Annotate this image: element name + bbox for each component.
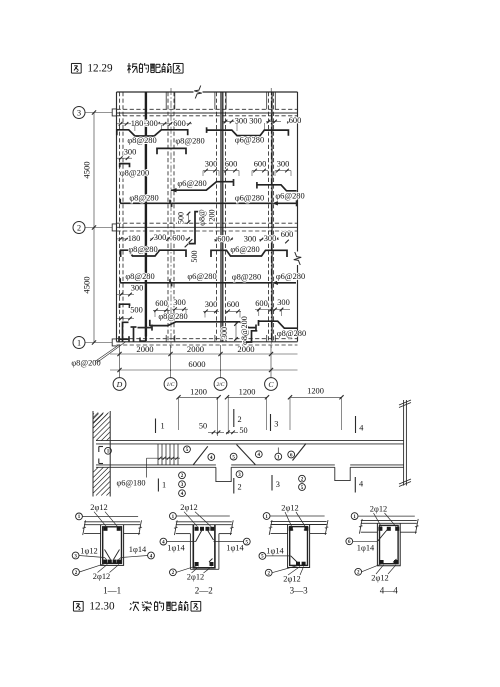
svg-text:300: 300 [249, 116, 262, 125]
svg-text:300: 300 [124, 148, 137, 157]
svg-text:φ8@200: φ8@200 [120, 169, 149, 178]
svg-text:600: 600 [227, 300, 240, 309]
svg-text:300: 300 [220, 327, 229, 339]
svg-text:1—1: 1—1 [103, 586, 121, 596]
svg-text:600: 600 [281, 230, 294, 239]
svg-text:2φ12: 2φ12 [90, 503, 107, 512]
svg-text:300: 300 [277, 160, 290, 169]
svg-text:φ8@280: φ8@280 [127, 136, 156, 145]
svg-text:600: 600 [173, 119, 186, 128]
svg-text:φ8@280: φ8@280 [158, 312, 187, 321]
svg-text:3: 3 [274, 420, 278, 429]
svg-text:1φ14: 1φ14 [167, 544, 185, 553]
svg-text:600: 600 [255, 299, 268, 308]
svg-text:2φ12: 2φ12 [187, 573, 204, 582]
svg-text:600: 600 [217, 235, 230, 244]
svg-text:φ6@180: φ6@180 [116, 479, 145, 488]
svg-text:1φ14: 1φ14 [357, 544, 375, 553]
svg-text:300: 300 [205, 300, 218, 309]
svg-text:180: 180 [128, 234, 141, 243]
svg-text:2φ12: 2φ12 [370, 505, 387, 514]
svg-text:φ8@280: φ8@280 [129, 194, 158, 203]
svg-text:1200: 1200 [239, 387, 256, 396]
svg-text:300: 300 [205, 159, 218, 168]
svg-text:φ8@: φ8@ [198, 209, 207, 226]
svg-text:1φ12: 1φ12 [80, 547, 97, 556]
svg-text:φ6@280: φ6@280 [276, 272, 305, 281]
svg-text:600: 600 [225, 159, 238, 168]
svg-text:12.29: 12.29 [87, 63, 113, 75]
svg-text:φ6@280: φ6@280 [177, 179, 206, 188]
svg-text:φ8@280: φ8@280 [277, 329, 306, 338]
svg-text:500: 500 [176, 212, 185, 224]
svg-text:4—4: 4—4 [380, 586, 399, 596]
svg-text:300: 300 [154, 233, 167, 242]
svg-text:3—3: 3—3 [290, 586, 309, 596]
svg-text:D: D [116, 380, 123, 389]
svg-text:3: 3 [276, 480, 280, 489]
svg-text:1200: 1200 [190, 387, 207, 396]
svg-text:3: 3 [77, 108, 81, 117]
svg-text:φ8@280: φ8@280 [175, 137, 204, 146]
svg-text:1φ14: 1φ14 [266, 547, 284, 556]
svg-text:1/C: 1/C [166, 382, 174, 388]
svg-text:300: 300 [264, 234, 277, 243]
svg-text:φ8@280: φ8@280 [125, 272, 154, 281]
svg-text:φ8@280: φ8@280 [232, 273, 261, 282]
svg-text:300: 300 [244, 235, 257, 244]
svg-text:φ6@280: φ6@280 [235, 135, 264, 144]
svg-text:1: 1 [162, 481, 166, 490]
svg-text:6000: 6000 [188, 359, 205, 369]
svg-text:4500: 4500 [81, 161, 91, 178]
svg-text:300: 300 [131, 284, 144, 293]
svg-text:300: 300 [235, 116, 248, 125]
svg-text:φ8@280: φ8@280 [128, 245, 157, 254]
svg-text:φ8@200: φ8@200 [71, 359, 100, 368]
svg-text:4500: 4500 [81, 276, 91, 293]
svg-text:600: 600 [254, 160, 267, 169]
svg-text:2000: 2000 [136, 344, 153, 354]
svg-text:C: C [268, 380, 274, 389]
svg-text:300: 300 [173, 298, 186, 307]
svg-text:300: 300 [277, 298, 290, 307]
svg-text:2φ12: 2φ12 [371, 574, 388, 583]
svg-text:φ6@280: φ6@280 [230, 245, 259, 254]
svg-text:50: 50 [239, 426, 247, 435]
svg-text:12.30: 12.30 [89, 601, 115, 613]
svg-text:2φ12: 2φ12 [281, 504, 298, 513]
svg-text:600: 600 [289, 116, 302, 125]
svg-text:500: 500 [130, 306, 143, 315]
svg-text:2/C: 2/C [216, 382, 224, 388]
svg-text:φ6@280: φ6@280 [235, 194, 264, 203]
svg-text:φ6@280: φ6@280 [187, 272, 216, 281]
svg-text:2φ12: 2φ12 [180, 503, 197, 512]
svg-text:φ6@280: φ6@280 [275, 191, 304, 200]
svg-text:500: 500 [190, 250, 199, 262]
svg-text:1φ14: 1φ14 [129, 545, 147, 554]
svg-text:200: 200 [208, 209, 217, 221]
svg-text:2φ12: 2φ12 [283, 575, 300, 584]
svg-text:2—2: 2—2 [195, 586, 213, 596]
svg-text:1200: 1200 [307, 387, 324, 396]
svg-text:2φ12: 2φ12 [93, 572, 110, 581]
svg-text:2: 2 [238, 415, 242, 424]
svg-text:180: 180 [131, 119, 144, 128]
svg-text:600: 600 [155, 299, 168, 308]
svg-text:2000: 2000 [187, 344, 204, 354]
svg-text:50: 50 [199, 421, 207, 430]
svg-text:2: 2 [77, 223, 81, 232]
svg-text:1: 1 [161, 422, 165, 431]
svg-text:φ8@200: φ8@200 [240, 316, 249, 345]
svg-text:2: 2 [238, 483, 242, 492]
svg-text:300: 300 [145, 119, 158, 128]
svg-text:1φ14: 1φ14 [226, 544, 244, 553]
svg-text:600: 600 [172, 234, 185, 243]
svg-text:1: 1 [77, 338, 81, 347]
